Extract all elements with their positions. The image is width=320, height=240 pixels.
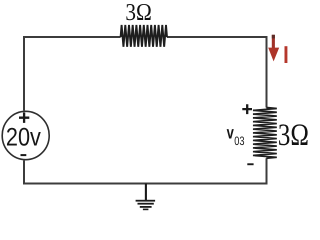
node v03 label [227,123,245,148]
svg-text:03: 03 [234,134,244,148]
current arrow I (red, pointing down) [268,35,279,62]
svg-text:3Ω: 3Ω [278,117,309,152]
resistor R2 coil 3ohm right [253,108,277,159]
node v03 minus sign [247,163,253,165]
wire top-right L (top wire right segment + right wire upper segment) [167,37,267,108]
svg-text:20v: 20v [6,123,41,151]
voltage source V1 circle [2,111,49,159]
wire bottom U (right wire lower segment + bottom wire + left wire lower segment) [24,158,267,183]
node v03 plus sign [242,104,252,114]
wire top-left L (top wire left segment + left wire upper segment) [24,37,121,111]
ground [136,184,156,211]
voltage source V1 minus sign [21,154,27,156]
voltage source V1 plus sign [19,113,29,123]
svg-text:3Ω: 3Ω [125,0,151,26]
svg-text:v: v [227,123,234,143]
resistor R1 coil 3ohm top [121,25,167,47]
current label I (red) [285,46,288,63]
